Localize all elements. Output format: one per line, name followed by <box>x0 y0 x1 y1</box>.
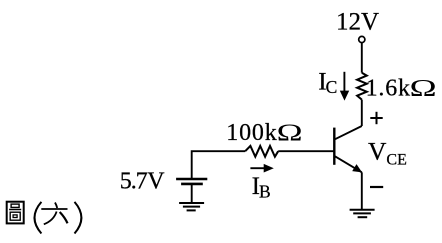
transistor Q1 emitter arrowhead <box>352 164 362 172</box>
wire: battery corner to resistor left <box>192 151 246 179</box>
wire: terminal to resistor top <box>361 43 363 73</box>
svg-text:Ω: Ω <box>410 76 437 102</box>
resistor R1 1.6k zigzag <box>357 73 367 100</box>
svg-text:Ω: Ω <box>277 120 303 146</box>
current arrow I_C <box>340 72 349 101</box>
svg-text:1.6k: 1.6k <box>366 75 411 101</box>
svg-text:B: B <box>259 182 271 202</box>
wire: battery bottom to ground <box>191 185 193 203</box>
svg-text:V: V <box>147 169 165 195</box>
node: 12V supply terminal circle <box>359 36 365 42</box>
label 100kΩ <box>226 120 302 147</box>
ground (left) <box>179 203 204 210</box>
label I_B <box>252 173 271 202</box>
caption character 六 <box>41 203 67 225</box>
battery B1 top plate <box>176 178 207 181</box>
caption closing parenthesis <box>75 202 82 234</box>
svg-text:CE: CE <box>386 152 406 169</box>
resistor R2 100k zigzag <box>245 146 278 157</box>
svg-text:12V: 12V <box>336 9 379 36</box>
caption character 圖 <box>7 202 24 224</box>
label plus sign of V_CE <box>370 112 382 124</box>
wire: resistor right to transistor base <box>278 150 333 152</box>
wire: resistor bottom to collector kink <box>361 100 363 126</box>
svg-text:5.7: 5.7 <box>120 169 148 195</box>
battery B1 bottom plate <box>181 183 203 186</box>
svg-text:C: C <box>326 77 338 97</box>
transistor Q1 collector diagonal <box>335 126 362 139</box>
svg-text:100k: 100k <box>226 120 277 146</box>
label V_CE <box>368 136 407 168</box>
label minus sign of V_CE <box>370 186 383 188</box>
transistor Q1 bar <box>333 128 335 165</box>
label I_C <box>318 69 337 98</box>
label 1.6kΩ <box>366 75 437 102</box>
transistor Q1 emitter diagonal <box>335 156 362 172</box>
svg-text:V: V <box>368 136 387 165</box>
wire: emitter to ground <box>361 172 363 209</box>
ground (right) <box>350 210 375 218</box>
caption opening parenthesis <box>35 202 42 234</box>
current arrow I_B <box>250 164 273 173</box>
